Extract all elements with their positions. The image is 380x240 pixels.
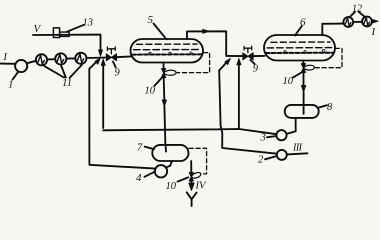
svg-text:V: V: [34, 23, 42, 35]
svg-text:7: 7: [137, 143, 143, 154]
valve 9 first: bowtie: [106, 54, 116, 61]
svg-text:4: 4: [136, 172, 142, 184]
injector 13 nozzle: [60, 32, 69, 36]
control valve 10 under vessel 5: actuator loop: [164, 70, 176, 75]
svg-text:10: 10: [166, 181, 177, 192]
vessel 5 level bubbles: [149, 52, 151, 54]
label 7 pointer: [145, 147, 154, 150]
pump 3: [276, 130, 286, 140]
label 2 pointer: [265, 156, 277, 159]
heat exchanger 11c: [75, 53, 86, 64]
wire stream III stub: [287, 153, 308, 154]
control valve 10 under vessel 5: bowtie: [161, 69, 165, 78]
wire HX11a to HX11b: [47, 58, 55, 60]
instrument line vessel 6 to valve 10: [315, 48, 342, 67]
label 10 third pointer: [178, 177, 189, 181]
recycle riser A arrow into junction 1: [89, 61, 97, 69]
wire water header y130: [103, 129, 276, 134]
svg-text:3: 3: [260, 133, 266, 144]
junction 2 point: [226, 55, 243, 57]
valve 9 second: bowtie: [243, 53, 253, 60]
arrow into junction from V: [98, 50, 102, 57]
label 13 pointer: [67, 25, 84, 32]
wire vessel 7 to pump 4: [167, 161, 173, 168]
arrow on drop line: [162, 100, 167, 107]
control valve 10 under vessel 6: bowtie: [301, 64, 305, 73]
wire stream I outlet arrow: [372, 20, 374, 22]
wire HX11b to HX11c: [66, 57, 75, 59]
drain funnel symbol: [187, 192, 197, 206]
vessel 5 tray row 2: [134, 49, 201, 51]
wire pump 2 suction: [222, 148, 277, 154]
vessel 5 tray row 1: [137, 43, 198, 45]
wire valve 10 down into vessel 8: [303, 72, 305, 113]
control valve 10 under vessel 6: actuator loop: [303, 65, 314, 70]
vessel 5 liquid level band: [132, 53, 202, 55]
separator pot 1: [15, 60, 27, 72]
label 9 first pointer: [113, 62, 116, 68]
control valve 10 under vessel 6: inlet stub: [302, 61, 304, 64]
svg-text:6: 6: [300, 17, 306, 29]
pump 4: [155, 165, 167, 177]
svg-text:I: I: [3, 52, 8, 63]
wire gas line vessel 6 to coolers: [322, 24, 343, 35]
riser from water line: arrow up into junction 2: [238, 63, 240, 129]
label 10 first pointer: [155, 78, 162, 86]
wire pump 4 to riser A: [89, 69, 155, 169]
svg-text:2: 2: [258, 155, 264, 166]
wire valve 9 second to vessel 6: [253, 55, 264, 57]
svg-text:8: 8: [327, 102, 333, 113]
svg-text:III: III: [292, 143, 303, 154]
wire vessel 7 to drain valve: [190, 161, 192, 173]
label 12 pointers: [350, 12, 365, 17]
vessel 6 liquid level band: [266, 52, 334, 54]
vessel 6 level bubbles: [284, 51, 286, 53]
heat exchanger 11a: [36, 54, 47, 65]
label 1 pointer: [13, 72, 19, 80]
wire stream I inlet: [0, 63, 15, 65]
control valve 10 third: actuator loop: [191, 173, 200, 179]
wire pot1 to HX11a: [27, 61, 36, 63]
valve 9 second: stem and handle: [244, 46, 252, 52]
svg-text:10: 10: [283, 76, 294, 87]
svg-text:12: 12: [352, 4, 362, 15]
svg-text:9: 9: [115, 68, 121, 79]
recycle riser B arrow into junction 1: [102, 64, 104, 129]
svg-text:I: I: [371, 26, 377, 38]
svg-text:13: 13: [83, 18, 94, 29]
vessel 8: [285, 105, 319, 118]
wire valve 9 to vessel 5: [117, 55, 131, 58]
svg-text:1: 1: [8, 79, 14, 91]
wire gas line vessel5 to junction 2: [187, 31, 226, 55]
svg-text:IV: IV: [195, 181, 207, 192]
label 4 pointer: [145, 171, 156, 176]
cooler 12b: [362, 17, 372, 27]
label 9 second pointer: [251, 60, 255, 64]
injector 13 body: [53, 28, 59, 38]
wire stream V: [33, 35, 101, 53]
wire cooler 12a to 12b: [353, 21, 362, 23]
wire HX11c to junction 1: [87, 57, 107, 60]
wire vessel 8 to pump 3: [287, 118, 296, 134]
vessel 6 tray row 1: [271, 41, 330, 43]
arrow on gas line: [203, 29, 210, 33]
vessel 6 tray row 2: [267, 47, 333, 49]
valve 9 first: stem and handle: [107, 47, 115, 54]
label 10 second pointer: [293, 73, 301, 78]
label 11 pointers: [45, 65, 83, 78]
svg-text:9: 9: [253, 64, 259, 75]
control valve 10 under vessel 5: inlet stub: [163, 63, 165, 69]
wire stream IV outlet arrow: [190, 181, 192, 184]
vessel 6: [264, 35, 335, 61]
svg-text:10: 10: [145, 86, 156, 97]
vessel 7: [152, 145, 188, 161]
arrow into vessel 8: [301, 85, 306, 92]
instrument line vessel 5 to valve 10: [177, 53, 210, 73]
pump 2: [277, 150, 287, 160]
svg-text:11: 11: [62, 77, 72, 89]
riser from pump 2: diagonal arrow into junction 2: [219, 62, 227, 71]
vessel 5: [131, 39, 204, 63]
svg-text:5: 5: [148, 14, 154, 26]
cooler 12a: [343, 17, 353, 27]
wire valve 10 down to vessel 7: [164, 78, 166, 152]
label 6 pointer: [295, 26, 302, 35]
control valve 10 third: bowtie: [189, 173, 193, 181]
label 5 pointer: [154, 24, 167, 40]
heat exchanger 11b: [55, 53, 66, 64]
label 8 pointer: [319, 105, 328, 107]
instrument line vessel 7 to valve 10: [189, 148, 207, 174]
label 3 pointer: [267, 136, 276, 137]
riser from pump 2 with crossing jog: [219, 71, 222, 148]
